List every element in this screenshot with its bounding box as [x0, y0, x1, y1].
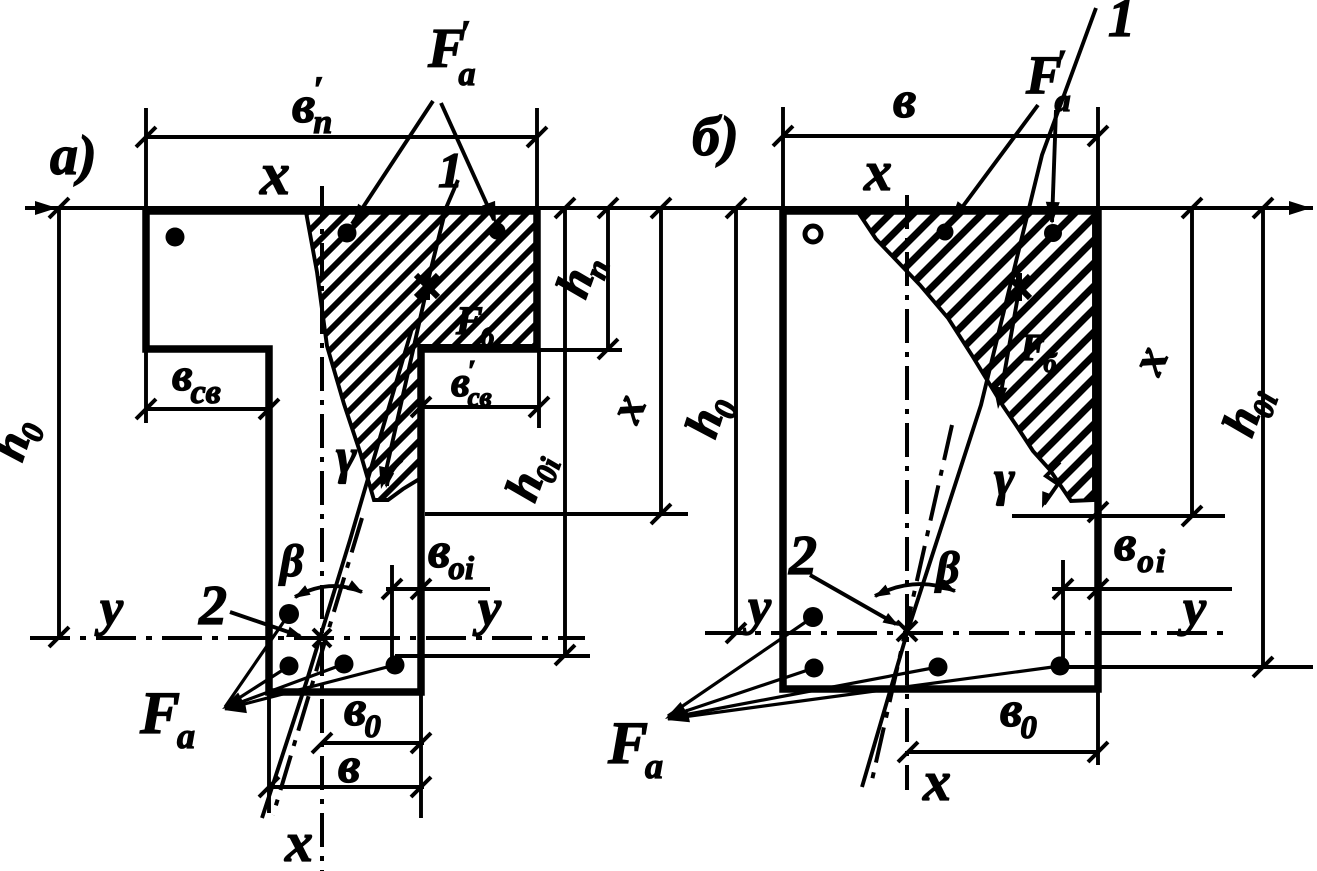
- beta arc left fig: [295, 586, 362, 597]
- line 2 force plane dash-dot left fig: [427, 180, 458, 285]
- F'a leader left: [352, 101, 433, 224]
- top rebar dot 3 left fig: [489, 223, 506, 240]
- Fa fan arrowheads: [219, 692, 245, 715]
- F'a leader 2 right fig: [1052, 110, 1056, 222]
- svg-text:1: 1: [1108, 0, 1135, 48]
- centroid cross left fig: [313, 629, 331, 647]
- label h0 right fig: [675, 389, 745, 446]
- dimension h_p: [606, 208, 610, 348]
- beta arc right fig: [875, 584, 955, 596]
- svg-text:х: х: [259, 141, 290, 207]
- label h0 left fig: [0, 412, 52, 469]
- dimension h_0i left fig: [563, 208, 567, 655]
- h_0i bottom extension right fig: [1065, 665, 1313, 669]
- centroid star right fig: [897, 621, 917, 641]
- label x depth right fig: [1120, 338, 1179, 382]
- Fa leader fan right fig: [668, 617, 1060, 719]
- web left extension down: [267, 692, 271, 813]
- right edge extension up right fig: [1096, 107, 1100, 211]
- section outline T-shape: [146, 211, 537, 692]
- gamma arrow right fig: [1044, 462, 1060, 504]
- bottom rebar dot 2 left fig: [335, 655, 354, 674]
- Fa leader fan left fig: [225, 614, 395, 709]
- svg-text:б): б): [692, 106, 739, 168]
- dimension b'_sv right: [537, 349, 541, 428]
- svg-text:2: 2: [198, 575, 227, 637]
- top extension line: [25, 206, 1313, 210]
- x depth bottom extension: [425, 512, 688, 516]
- dimension x depth left fig: [659, 208, 663, 514]
- line 2 force plane dash-dot right fig: [872, 425, 952, 780]
- dimension b_0i left fig: [390, 565, 394, 660]
- bottom rebar dot 1 right fig: [805, 659, 824, 678]
- Fb force arrow left fig: [383, 288, 427, 484]
- x axis vertical dash-dot right fig: [905, 195, 909, 790]
- Fb force arrow right fig: [999, 290, 1019, 404]
- svg-text:в: в: [338, 737, 360, 793]
- dimension h_0i right fig: [1261, 208, 1265, 667]
- top line left arrow: [35, 201, 57, 215]
- line 1 neutral axis right fig: [862, 8, 1096, 787]
- h_0i bottom extension: [395, 654, 590, 658]
- dimension b_0 right fig: [908, 750, 1100, 754]
- label h_0i left fig: [495, 444, 568, 510]
- svg-text:х: х: [284, 812, 313, 871]
- star compression centroid right fig: [1008, 273, 1030, 301]
- hatch compression zone right fig: [858, 212, 1094, 501]
- dimension h0 left fig: [57, 208, 61, 638]
- x axis vertical dash-dot left fig: [320, 186, 324, 871]
- dimension b left fig: [269, 785, 424, 789]
- svg-text:1: 1: [438, 142, 463, 198]
- top line right arrow: [1289, 201, 1311, 215]
- y axis dash-dot right fig: [705, 631, 1232, 635]
- line 1 neutral axis left fig: [262, 325, 413, 818]
- y axis dash-dot left fig: [30, 636, 585, 640]
- svg-text:γ: γ: [994, 450, 1015, 506]
- top rebar dot 3 right fig: [1044, 224, 1062, 242]
- dimension b_0i right fig: [1061, 560, 1065, 666]
- flange left extension up: [144, 108, 148, 211]
- svg-text:в: в: [893, 72, 916, 129]
- h_p bottom extension: [540, 348, 622, 352]
- bottom rebar dot 3 left fig: [386, 656, 405, 675]
- x depth bottom extension right fig: [1012, 514, 1225, 518]
- dimension b'p line: [146, 135, 537, 139]
- F'a leader 1 right fig: [952, 105, 1038, 221]
- section outline rectangle: [783, 211, 1098, 689]
- gamma arrow left fig: [387, 460, 402, 486]
- dimension b_0 left fig: [322, 741, 424, 745]
- Fa fan arrowheads right fig: [662, 702, 688, 725]
- web right extension down: [419, 692, 423, 818]
- top rebar ring right fig: [805, 226, 821, 242]
- leader from 2 left fig: [230, 612, 300, 636]
- bottom rebar dot 2 right fig: [929, 658, 948, 677]
- F'a leader right: [441, 103, 494, 220]
- top rebar dot 2 left fig: [338, 224, 357, 243]
- hatch compression zone: [306, 212, 537, 500]
- flange right extension up: [535, 108, 539, 211]
- label h_p: [546, 246, 617, 306]
- dimension h0 right fig: [734, 208, 738, 633]
- label h_0i right fig: [1212, 379, 1285, 445]
- upper rebar dot right fig: [803, 607, 823, 627]
- svg-text:а): а): [50, 125, 97, 187]
- top rebar dot 1 left fig: [166, 228, 185, 247]
- top rebar dot 2 right fig: [937, 224, 954, 241]
- svg-text:х: х: [922, 751, 951, 813]
- bottom rebar dot 1 left fig: [280, 657, 299, 676]
- left edge extension up right fig: [781, 107, 785, 211]
- dimension b_sv left: [144, 349, 148, 423]
- right edge extension down right fig: [1096, 689, 1100, 765]
- upper rebar dot left fig: [279, 604, 299, 624]
- leader from 2 right fig: [810, 575, 896, 624]
- svg-text:х: х: [863, 141, 892, 203]
- dimension b right fig: [783, 134, 1098, 138]
- label x depth left fig: [598, 386, 657, 430]
- svg-text:β: β: [278, 535, 304, 586]
- dimension x depth right fig: [1190, 208, 1194, 516]
- star compression centroid left fig: [416, 272, 438, 300]
- bottom rebar dot 3 right fig: [1051, 657, 1070, 676]
- svg-text:γ: γ: [336, 428, 357, 484]
